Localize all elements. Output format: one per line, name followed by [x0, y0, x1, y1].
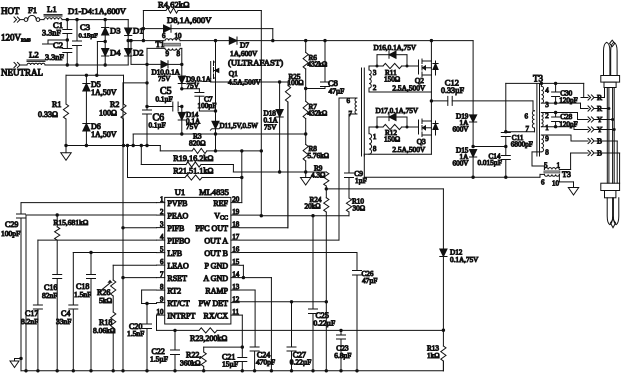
wire RT2 bracket: [142, 290, 157, 304]
inductor L1: [40, 4, 62, 19]
diode D7: [228, 37, 283, 68]
wire T2 pin8 to source and return: [364, 135, 431, 177]
node U1 pin 3 PIFB: [157, 221, 185, 233]
wire R4 riser lower: [260, 11, 262, 216]
node U1 pin 1 PVFB: [157, 196, 188, 208]
wire aux filter branch: [123, 64, 149, 108]
svg-text:47µF: 47µF: [362, 277, 377, 285]
diode D2: [125, 41, 144, 65]
svg-text:30Ω: 30Ω: [353, 204, 366, 212]
svg-text:T1: T1: [156, 40, 165, 49]
wire connector R1 to lamp: [594, 88, 605, 98]
wire T3 pin4 feedback line: [506, 82, 584, 98]
resistor R23: [190, 328, 443, 343]
transistor Q2: [392, 41, 438, 92]
lamp holder top: [601, 76, 620, 88]
wire Vcc: [239, 214, 349, 217]
svg-text:75V: 75V: [158, 75, 171, 83]
svg-text:(ULTRAFAST): (ULTRAFAST): [228, 58, 283, 68]
ground chassis between C1 C2: [43, 38, 70, 44]
svg-text:R4,62kΩ: R4,62kΩ: [158, 0, 189, 10]
wire neutral rail: [45, 63, 128, 66]
wire RSET: [123, 277, 157, 279]
diode D4: [102, 42, 122, 66]
svg-text:0.1µF: 0.1µF: [156, 96, 173, 104]
node U1 pin 16: [204, 246, 239, 258]
transformer T3 ballast winding 5-1: [544, 162, 561, 174]
node D1-D4 header label: [68, 6, 127, 16]
wire T1 pin9 lead: [147, 48, 165, 64]
svg-text:1µF: 1µF: [355, 177, 367, 185]
node 120Vrms label: [1, 33, 31, 43]
resistor R22: [180, 347, 242, 371]
svg-text:RX/CX: RX/CX: [204, 311, 229, 320]
svg-text:1: 1: [373, 133, 377, 141]
op-amp U1 ML4835 controller: [165, 187, 231, 324]
node U1 pin 20: [213, 196, 239, 208]
svg-text:7: 7: [160, 271, 164, 279]
wire OUT A: [239, 98, 357, 240]
wire T3 pin2 to connector: [541, 113, 581, 120]
ground lamp return: [568, 188, 578, 196]
wire T3 pin3 to connector: [541, 103, 581, 108]
node U1 pin 5 LFB: [157, 246, 183, 258]
svg-text:5kΩ: 5kΩ: [99, 296, 113, 305]
wire connector B2 to lamp: [594, 153, 620, 183]
svg-text:5: 5: [544, 162, 548, 170]
svg-text:L2: L2: [29, 50, 39, 60]
node U1 pin 13: [205, 283, 239, 295]
transformer T3 winding 6-7: [525, 111, 535, 133]
wire REF riser: [239, 149, 243, 202]
wire RT/CT: [142, 302, 157, 305]
svg-text:3: 3: [373, 69, 377, 77]
svg-text:R19,16.2kΩ: R19,16.2kΩ: [173, 154, 213, 163]
node NEUTRAL input connector: [1, 62, 43, 77]
svg-text:R23,200kΩ: R23,200kΩ: [190, 334, 227, 343]
svg-text:A GND: A GND: [203, 274, 228, 283]
wire connector Y2 to lamp: [594, 128, 616, 131]
node U1 pin 11: [204, 308, 240, 320]
svg-text:8: 8: [177, 50, 181, 58]
wire T1 pin10 to Q1 drain: [180, 39, 229, 42]
svg-text:1.5nF: 1.5nF: [127, 329, 144, 338]
svg-text:2.5A,500V: 2.5A,500V: [392, 145, 426, 154]
diode D19: [453, 41, 477, 149]
svg-text:3.3nF: 3.3nF: [42, 29, 61, 38]
diode D5: [83, 75, 117, 123]
capacitor C23: [334, 330, 351, 370]
resistor R13: [427, 330, 446, 371]
svg-text:R1: R1: [52, 100, 61, 109]
wire P GND bracket: [239, 265, 245, 279]
wire T2 pin7 lead: [349, 114, 357, 173]
wire bridge left mid to lower network: [97, 40, 107, 76]
svg-text:75V: 75V: [186, 123, 199, 131]
capacitor C20: [127, 304, 152, 371]
node output connector B5: [581, 149, 602, 158]
capacitor C2: [45, 40, 72, 65]
svg-text:D1-D4:1A,600V: D1-D4:1A,600V: [68, 6, 127, 16]
svg-text:8: 8: [545, 149, 549, 157]
transformer T1: [156, 32, 183, 58]
node U1 pin 17: [204, 233, 239, 245]
svg-text:150Ω: 150Ω: [384, 75, 400, 83]
svg-text:1kΩ: 1kΩ: [427, 352, 440, 360]
wire return L1: [133, 132, 306, 145]
diode D17: [369, 107, 419, 134]
node U1 pin 15: [205, 258, 240, 270]
capacitor C22: [150, 330, 180, 370]
transformer T2 core: [362, 68, 365, 156]
wire PW DET: [239, 300, 328, 371]
resistor R11: [376, 63, 419, 83]
wire PEAO: [26, 213, 157, 370]
svg-text:PVFB: PVFB: [167, 199, 187, 208]
node U1 pin 8 RT2: [157, 283, 182, 295]
fuse F1: [24, 5, 40, 21]
svg-text:0.22µF: 0.22µF: [314, 319, 336, 328]
node U1 pin 18: [195, 221, 239, 233]
wire T3 pin7 to divider: [504, 128, 534, 133]
svg-text:D16,0.1A,75V: D16,0.1A,75V: [374, 44, 417, 52]
svg-text:82nF: 82nF: [42, 291, 57, 300]
node U1 pin 4 PIFBO: [157, 233, 191, 245]
inductor L2: [20, 50, 45, 65]
resistor R9: [306, 165, 329, 191]
svg-text:120VRMS: 120VRMS: [1, 33, 31, 43]
svg-text:D17,0.1A,75V: D17,0.1A,75V: [376, 107, 419, 115]
svg-text:1A,600V: 1A,600V: [230, 49, 258, 58]
transformer T3 winding 9-8: [541, 135, 549, 157]
wire input network top: [66, 74, 124, 77]
capacitor C1: [42, 20, 72, 40]
svg-text:15µF: 15µF: [222, 360, 238, 369]
wire return to ballast pin6: [540, 174, 544, 177]
svg-text:2: 2: [545, 112, 549, 120]
svg-text:432kΩ: 432kΩ: [308, 61, 328, 69]
svg-text:P GND: P GND: [205, 261, 229, 270]
svg-text:1: 1: [545, 124, 549, 132]
svg-text:REF: REF: [213, 199, 228, 208]
capacitor C14: [473, 145, 510, 177]
svg-text:F1: F1: [28, 5, 37, 15]
svg-text:2.5A,500V: 2.5A,500V: [392, 83, 426, 92]
svg-text:8.06kΩ: 8.06kΩ: [93, 326, 116, 335]
resistor R21: [128, 146, 244, 181]
svg-text:150Ω: 150Ω: [384, 135, 400, 143]
capacitor C17: [21, 240, 157, 371]
resistor R8: [303, 144, 329, 177]
svg-text:U1: U1: [175, 187, 185, 197]
wire ground bus: [21, 361, 443, 372]
svg-text:75V: 75V: [264, 124, 277, 132]
ground under R1: [61, 146, 71, 161]
resistor R25: [285, 73, 303, 228]
svg-text:1A,50V: 1A,50V: [91, 88, 117, 97]
capacitor C29: [1, 203, 157, 371]
svg-text:0.1µF: 0.1µF: [149, 122, 166, 130]
svg-text:LEAO: LEAO: [167, 261, 189, 270]
svg-text:LFB: LFB: [167, 249, 182, 258]
wire RX/CX: [239, 315, 244, 349]
wire PFC OUT riser: [239, 102, 288, 228]
capacitor C5: [147, 86, 184, 111]
diode D6: [83, 122, 117, 146]
svg-text:1.5nF: 1.5nF: [74, 290, 91, 299]
capacitor C3: [73, 20, 99, 65]
resistor R6: [303, 41, 327, 102]
svg-text:PIFBO: PIFBO: [167, 236, 190, 245]
diode D14: [178, 107, 201, 135]
svg-text:C2: C2: [53, 40, 63, 50]
wire T1 pin8 lead: [180, 48, 182, 64]
svg-text:D3: D3: [110, 26, 121, 36]
capacitor C11: [501, 83, 532, 148]
svg-text:6: 6: [541, 179, 545, 187]
node output connector Y2: [581, 115, 603, 124]
capacitor C4: [56, 251, 157, 371]
svg-text:4: 4: [545, 87, 549, 95]
diode D10: [129, 39, 183, 83]
svg-text:10: 10: [552, 180, 560, 188]
svg-text:10: 10: [157, 308, 165, 316]
node U1 pin 9 RT/CT: [157, 296, 190, 308]
capacitor C28: [552, 111, 578, 129]
wire top rail: [62, 18, 128, 21]
svg-text:6.8µF: 6.8µF: [334, 352, 351, 360]
svg-text:2: 2: [160, 208, 164, 216]
svg-text:0.22µF: 0.22µF: [290, 358, 312, 367]
svg-text:2: 2: [373, 84, 377, 92]
lamp tube bottom tip: [607, 198, 619, 228]
node output connector R0: [581, 93, 602, 102]
svg-text:600V: 600V: [453, 160, 470, 168]
capacitor C8: [306, 41, 345, 96]
wire return bus L2: [64, 144, 160, 147]
wire A GND to ground: [239, 278, 271, 371]
svg-text:L1: L1: [47, 4, 57, 14]
svg-text:1A,50V: 1A,50V: [91, 130, 117, 139]
svg-text:4: 4: [160, 233, 164, 241]
diode D16: [369, 44, 417, 70]
svg-text:INTRPT: INTRPT: [167, 311, 195, 320]
svg-text:1: 1: [557, 162, 561, 170]
node U1 pin 2 PEAO: [157, 208, 189, 220]
wire R4 riser: [142, 11, 145, 41]
wire ballast pin10 to ground: [559, 174, 573, 187]
node U1 pin 19: [214, 208, 240, 221]
svg-text:RT2: RT2: [167, 286, 181, 295]
svg-text:R21,51.1kΩ: R21,51.1kΩ: [173, 167, 213, 176]
svg-text:1.5µF: 1.5µF: [150, 355, 168, 364]
svg-text:RT/CT: RT/CT: [167, 299, 189, 308]
diode D18: [264, 82, 284, 172]
transformer T2 winding 3-2: [369, 69, 377, 92]
capacitor C16: [42, 275, 62, 371]
zener D11: [210, 111, 258, 151]
transformer T3 ballast winding 6-10: [541, 170, 571, 188]
node U1 pin 6 LEAO: [157, 258, 189, 270]
svg-text:9: 9: [545, 135, 549, 143]
svg-text:8: 8: [373, 145, 377, 153]
wire T3 pin8 to ballast coil: [532, 152, 544, 170]
transformer T3 winding 4-3: [541, 86, 549, 109]
resistor R18: [93, 296, 116, 371]
svg-text:ML4835: ML4835: [199, 187, 229, 197]
diode D15: [453, 147, 477, 178]
svg-text:47µF: 47µF: [329, 86, 345, 95]
svg-text:0.1A,75V: 0.1A,75V: [450, 256, 479, 264]
wire connector B1 to lamp: [594, 141, 617, 183]
wire HV bus: [237, 39, 473, 42]
svg-text:D1: D1: [133, 26, 144, 36]
resistor R24: [305, 189, 329, 301]
capacitor C12: [430, 78, 533, 106]
node output connector Y3: [581, 125, 603, 134]
svg-text:9: 9: [166, 50, 170, 58]
capacitor C30: [552, 83, 578, 104]
transformer T2 winding 1-8: [369, 133, 377, 154]
svg-text:100Ω: 100Ω: [288, 79, 304, 87]
svg-text:T3: T3: [562, 170, 571, 179]
wire T3 pin9 to connector: [541, 135, 581, 141]
svg-text:C3: C3: [80, 22, 90, 32]
svg-text:D8,1A,600V: D8,1A,600V: [167, 15, 212, 25]
wire Q1 gate: [211, 80, 288, 85]
svg-text:5: 5: [160, 246, 164, 254]
svg-text:600V: 600V: [453, 126, 470, 134]
transistor Q1: [211, 41, 262, 111]
wire bridge right mid: [127, 39, 164, 42]
capacitor C7: [182, 89, 217, 113]
node U1 pin 7 RSET: [157, 271, 188, 283]
lamp wires: [607, 88, 614, 184]
svg-text:432kΩ: 432kΩ: [308, 110, 328, 118]
node HOT input connector: [1, 6, 20, 22]
svg-text:9: 9: [160, 296, 164, 304]
transformer T3 winding 2-1: [541, 112, 549, 132]
svg-text:RAMP: RAMP: [205, 286, 228, 295]
svg-text:OUT B: OUT B: [204, 249, 228, 258]
capacitor C27: [287, 302, 311, 371]
diode D12: [440, 189, 479, 332]
svg-text:12: 12: [232, 296, 240, 304]
svg-text:100pF: 100pF: [1, 229, 20, 238]
node output connector R1: [581, 104, 602, 113]
svg-text:10: 10: [175, 32, 183, 40]
svg-text:6800pF: 6800pF: [511, 141, 533, 149]
svg-text:RSET: RSET: [167, 274, 187, 283]
wire RAMP: [239, 290, 255, 347]
svg-text:20kΩ: 20kΩ: [305, 203, 321, 211]
wire PIFB sense vertical: [121, 83, 124, 371]
wire connector Y1 to lamp: [594, 118, 614, 121]
capacitor C26: [353, 270, 378, 371]
wire connector R2 to lamp: [594, 107, 610, 110]
transistor Q3: [392, 101, 438, 154]
diode D9: [178, 64, 211, 90]
potentiometer R26: [97, 265, 157, 305]
svg-text:OUT A: OUT A: [204, 236, 228, 245]
svg-text:D4: D4: [110, 48, 121, 58]
diode D8: [143, 15, 272, 41]
resistor R3: [160, 132, 263, 154]
svg-text:VCC: VCC: [214, 211, 228, 221]
resistor R10: [346, 198, 365, 216]
svg-text:100Ω: 100Ω: [99, 109, 117, 118]
svg-text:NEUTRAL: NEUTRAL: [1, 68, 43, 78]
capacitor C24: [250, 347, 275, 371]
resistor R4: [143, 0, 261, 13]
svg-text:HOT: HOT: [1, 6, 20, 16]
resistor R1: [38, 75, 69, 145]
svg-text:R15,681kΩ: R15,681kΩ: [53, 218, 88, 227]
resistor R15: [53, 215, 88, 275]
svg-text:33nF: 33nF: [56, 317, 71, 326]
svg-text:PEAO: PEAO: [167, 211, 188, 220]
svg-text:0.015µF: 0.015µF: [478, 159, 502, 167]
svg-text:1: 1: [160, 196, 164, 204]
svg-text:3: 3: [160, 221, 164, 229]
svg-text:6: 6: [160, 258, 164, 266]
ground bottom left: [10, 357, 23, 368]
wire C12 to T3 pin6: [533, 101, 535, 111]
svg-text:5.76kΩ: 5.76kΩ: [308, 152, 330, 160]
capacitor C18: [74, 253, 96, 371]
lamp tubes top: [604, 40, 618, 75]
svg-text:PFC OUT: PFC OUT: [195, 224, 228, 233]
node output connector B4: [581, 137, 602, 146]
wire T2 pin2 to midpoint: [369, 75, 431, 101]
svg-text:C29: C29: [5, 220, 18, 229]
wire INTRPT: [157, 315, 200, 332]
svg-text:100µF: 100µF: [198, 102, 217, 110]
capacitor C25: [309, 216, 336, 371]
node U1 pin 12: [199, 296, 240, 308]
wire OUT B: [239, 253, 357, 271]
svg-text:3.3nF: 3.3nF: [45, 53, 64, 62]
resistor R12: [376, 124, 419, 143]
svg-text:6: 6: [525, 113, 529, 121]
svg-text:6: 6: [162, 32, 166, 40]
svg-text:11: 11: [232, 308, 239, 316]
wire R9 junction to D12: [326, 188, 443, 190]
diode D3: [102, 20, 121, 42]
wire hot lead: [20, 19, 24, 21]
svg-text:820Ω: 820Ω: [189, 138, 206, 147]
svg-text:4.3Ω: 4.3Ω: [311, 171, 325, 179]
transformer T3 core: [533, 74, 543, 157]
diode D1: [125, 20, 144, 41]
lamp holder bottom: [601, 183, 620, 198]
svg-text:3: 3: [545, 101, 549, 109]
svg-text:0.15µF: 0.15µF: [79, 32, 99, 39]
svg-text:8: 8: [160, 283, 164, 291]
capacitor C6: [143, 107, 166, 146]
wire PIFB: [121, 226, 156, 229]
svg-text:D2: D2: [133, 48, 144, 58]
svg-text:PW DET: PW DET: [199, 299, 229, 308]
resistor R19: [141, 146, 305, 174]
wire ballast pin1 to B connector: [559, 153, 581, 170]
svg-text:D11,5V,0.5W: D11,5V,0.5W: [220, 122, 259, 130]
transformer T2 winding 6-7 primary: [347, 97, 358, 118]
resistor R7: [303, 101, 327, 144]
wire half-bridge return: [364, 176, 540, 179]
svg-text:8.2nF: 8.2nF: [21, 317, 38, 326]
svg-text:470pF: 470pF: [256, 358, 275, 367]
